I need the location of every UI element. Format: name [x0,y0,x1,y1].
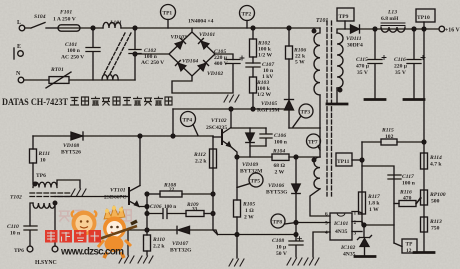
svg-text:C116: C116 [394,57,406,63]
wire R104 line [237,156,272,158]
resistor R105 [234,200,256,235]
svg-text:1N4004 ×4: 1N4004 ×4 [188,19,214,25]
svg-text:2.2 k: 2.2 k [153,244,165,250]
svg-text:TP9: TP9 [339,14,349,20]
svg-text:BYT53G: BYT53G [266,190,288,196]
svg-text:TP10: TP10 [417,15,430,21]
svg-text:100 n: 100 n [164,204,176,210]
svg-text:TP4: TP4 [183,118,193,124]
svg-text:VT102: VT102 [211,118,227,124]
inductor L13 [381,10,405,33]
wire secondary top [337,29,350,33]
node base tap [53,201,57,205]
node R108 left [145,192,149,196]
wire rail to transformer [121,27,320,29]
ground bar secondary [327,103,347,106]
wire x320 mid [319,128,321,157]
svg-text:30DF4: 30DF4 [347,43,363,49]
diode VD101 [198,38,208,48]
diode VD103 [168,26,191,49]
T102 lower winding [33,203,55,208]
svg-text:10: 10 [40,158,46,164]
svg-text:R111: R111 [38,151,51,157]
terminal E [14,44,23,59]
test point TP7 [307,134,321,150]
ground under C105 [224,95,239,102]
svg-text:C110: C110 [7,224,19,230]
svg-text:100 n: 100 n [274,140,288,146]
wire pin3 stub [352,231,362,233]
resistor R102 [250,28,273,63]
svg-text:RP100: RP100 [429,192,446,198]
T101 secondary winding [337,33,343,92]
wire [46,27,58,29]
title text [2,97,172,109]
zener VD110 [340,236,372,258]
svg-text:35 V: 35 V [357,70,368,76]
ground pin4 [304,258,319,265]
inductor L101 top winding [103,20,122,28]
ground R110 [138,256,153,263]
test point TP4 [181,112,199,136]
svg-text:R114: R114 [429,155,442,161]
svg-text:C108: C108 [272,238,284,244]
L101 coupling dashes [104,33,131,74]
svg-text:1/2 W: 1/2 W [258,53,272,59]
svg-text:5 W: 5 W [295,60,305,66]
wire ref node [362,222,394,237]
svg-text:TP6: TP6 [14,248,24,254]
resistor R112 [193,149,217,168]
resistor R116 [394,190,421,207]
node VT102 collector [229,107,233,111]
terminal H.SYNC [35,246,58,266]
node x213 R109 [211,212,215,216]
svg-text:2SD667C: 2SD667C [104,195,126,201]
svg-text:100 n: 100 n [67,48,81,54]
node VD107 left [145,228,149,232]
terminal TP6 [14,246,33,254]
svg-text:1.8 k: 1.8 k [368,201,380,207]
test point TP10 [416,9,435,29]
capacitor C102 [129,28,164,80]
capacitor C108 [272,235,303,258]
resistor R115 [362,128,424,146]
node TP11 [360,158,364,162]
svg-text:2 W: 2 W [275,170,285,176]
svg-text:6.8 mH: 6.8 mH [381,16,399,22]
wire x237 column [236,157,238,200]
svg-text:TP2: TP2 [242,12,252,18]
wire N line [69,79,135,81]
svg-text:L13: L13 [387,10,397,16]
capacitor C101 [61,28,100,80]
node x173 [171,134,175,138]
wire lower winding left to C110 [30,203,33,226]
wire collector line y109 [173,108,289,110]
fuse F101 [53,10,80,32]
resistor R108 [147,183,213,198]
svg-text:TP1: TP1 [163,11,173,17]
svg-text:470 µ: 470 µ [356,64,370,70]
wire secondary bottom to ground [336,88,338,103]
wire VT101 base [55,196,126,198]
resistor R109 [186,202,213,217]
capacitor C106 series [147,204,186,219]
svg-text:4.7 k: 4.7 k [430,162,442,168]
svg-text:470: 470 [403,196,412,202]
wire snubber top [231,127,266,129]
svg-text:750: 750 [431,226,440,232]
T101 aux winding [312,157,320,189]
wire output line [360,28,440,30]
test point TP12 [394,239,417,254]
diode VD109 [240,128,263,175]
test point TP2 [240,6,255,29]
node rail R102 [251,26,255,30]
diode VD102 [198,60,208,70]
test point TP5 [237,173,263,188]
node TP8 [294,221,298,225]
T101 primary winding [312,28,320,95]
resistor R110 [144,235,166,255]
svg-text:VT101: VT101 [110,188,126,194]
svg-text:N: N [16,71,21,77]
svg-text:R105: R105 [242,202,255,208]
svg-text:L: L [17,20,21,26]
svg-text:C115: C115 [356,57,368,63]
svg-text:1 A 250 V: 1 A 250 V [53,17,76,23]
svg-text:T102: T102 [10,195,22,201]
svg-text:33: 33 [192,206,198,212]
svg-text:www.dzsc.com: www.dzsc.com [60,247,124,258]
svg-text:VD107: VD107 [172,241,188,247]
svg-text:10 n: 10 n [10,231,21,237]
svg-text:1 Ω: 1 Ω [245,208,254,214]
optocoupler IC101 [330,213,352,240]
svg-text:4: 4 [325,230,328,236]
svg-text:S104: S104 [34,14,46,20]
svg-text:VD108: VD108 [63,143,79,149]
node R117 bottom [362,223,366,227]
svg-text:102: 102 [385,134,394,140]
wire x362 vertical [361,142,363,222]
node bus R105 [235,233,239,237]
transistor VT102 [206,109,237,157]
svg-text:C106: C106 [150,204,162,210]
svg-text:IC102: IC102 [340,245,356,251]
node bus C108 [294,233,298,237]
svg-text:VD109: VD109 [242,162,258,168]
wire x296 column [295,157,297,235]
svg-text:1/2 W: 1/2 W [257,92,271,98]
svg-text:R110: R110 [152,237,165,243]
svg-text:AC 250 V: AC 250 V [61,55,84,61]
bridge rectifier frame [169,28,215,76]
svg-text:50 V: 50 V [276,251,287,257]
wire pin2 stub [352,222,362,226]
svg-text:R112: R112 [193,152,206,158]
potentiometer RP100 [417,190,446,205]
ground T102 [71,189,86,196]
node C102 bottom [133,52,137,56]
wire bridge bottom return [172,64,233,93]
wire emitter column [146,194,148,235]
svg-text:2 W: 2 W [244,215,254,221]
ground left stub [119,256,134,263]
wire VD107 line [128,229,176,231]
diode VD105 [257,100,294,129]
diode VD108 [61,132,83,156]
capacitor C115 [356,29,386,99]
diode VD111 [346,25,363,49]
ground bar C115 [365,98,385,101]
svg-text:VD111: VD111 [346,36,362,42]
test point TP8 [271,214,296,228]
svg-text:68 Ω: 68 Ω [274,163,286,169]
wire bridge left to C102 [135,53,169,55]
node C116 [412,27,416,31]
capacitor C117 [388,174,416,187]
node C115 [373,27,377,31]
svg-text:5: 5 [325,221,328,227]
output terminal +16V [439,26,460,33]
wire drive line y136 [33,135,213,137]
diode VD106 [266,183,300,196]
resistor R113 [421,217,443,232]
ground bar R113 [414,251,434,254]
node R115 join [422,140,426,144]
node C101 top [91,26,95,30]
svg-text:TP3: TP3 [301,110,311,116]
svg-text:C117: C117 [402,174,414,180]
svg-text:R116: R116 [399,190,412,196]
ground R105 column [229,259,244,266]
svg-text:R113: R113 [429,219,442,225]
test point TP11 [336,153,362,166]
node R104 right [294,155,298,159]
svg-text:12: 12 [406,248,412,254]
capacitor C110 [7,224,37,246]
wire R105 ground drop [236,235,238,259]
svg-text:6: 6 [325,212,328,218]
capacitor C107 [246,62,274,80]
T101 core [327,21,332,196]
svg-text:VD101: VD101 [199,32,215,38]
node emitter [145,205,149,209]
ground bar C116 [404,98,424,101]
capacitor C116 [394,29,425,99]
svg-text:H.SYNC: H.SYNC [35,260,57,266]
ground C108 [287,258,302,265]
svg-text:+16 V: +16 V [445,28,460,34]
wire base column x213 [213,136,218,235]
svg-text:VD104: VD104 [182,59,198,65]
svg-text:VD102: VD102 [207,71,223,77]
svg-text:TP6: TP6 [36,173,46,179]
svg-text:R104: R104 [272,149,285,155]
wire [24,79,49,81]
capacitor C105 [214,49,244,67]
svg-text:RT01: RT01 [50,67,64,73]
test point TP1 [161,5,176,29]
wire aux bottom to pin6 [310,189,330,216]
svg-text:500: 500 [431,199,440,205]
resistor R114 [421,153,443,169]
inductor L101 bottom winding [102,75,118,80]
diode VD107 [170,226,218,253]
svg-text:220 µ: 220 µ [394,64,408,70]
wire lower winding right drop [54,203,56,246]
watermark [45,206,137,258]
svg-text:1 W: 1 W [369,207,379,213]
resistor R104 [272,149,320,176]
node C102 top [133,26,137,30]
test point TP3 [293,104,313,127]
svg-text:E: E [17,44,21,50]
node x237 [235,155,239,159]
svg-text:R117: R117 [367,194,380,200]
svg-text:L101: L101 [109,20,122,26]
wire bottom bus [218,234,297,236]
svg-text:TP: TP [406,242,414,248]
svg-text:DATAS CH-7423T: DATAS CH-7423T [2,98,69,108]
node VT101 collector [138,134,142,138]
node T102 top left [33,182,37,186]
wire upper winding to ground [57,180,80,188]
wire pin1 stub [352,212,362,214]
wire bridge right to C105 [215,54,233,60]
terminal L [17,20,25,31]
node y109 x253 [251,107,255,111]
resistor R111 [30,136,51,184]
wire branch to C117 [362,166,394,243]
switch S104 [25,14,46,28]
svg-text:TP5: TP5 [251,179,261,185]
wire pin4 to ground [313,232,330,257]
node rail R106 [287,26,291,30]
terminal N [16,71,24,83]
svg-text:400 V: 400 V [214,61,228,67]
ground bar zener [355,255,375,258]
svg-text:VD105: VD105 [261,101,277,107]
svg-text:C106: C106 [274,133,286,139]
wire x173 drop [172,109,174,136]
T102 core [10,193,70,201]
svg-text:IC101: IC101 [333,221,349,227]
svg-text:4N35: 4N35 [335,229,348,235]
wire feedback column [423,29,425,252]
node feedback column [422,27,426,31]
wire pin5 [296,222,330,224]
capacitor C106 parallel [260,128,288,146]
svg-text:35 V: 35 V [395,70,406,76]
T102 upper winding [33,182,57,187]
resistor R106 [286,28,307,99]
thermistor RT01 [46,67,71,88]
svg-text:VD103: VD103 [171,35,187,41]
transistor VT101 [104,136,147,207]
svg-text:TP8: TP8 [273,220,283,226]
svg-text:TP7: TP7 [308,140,318,146]
svg-text:2.2 k: 2.2 k [195,159,207,165]
svg-text:VD106: VD106 [268,183,284,189]
svg-text:100 n: 100 n [402,181,416,187]
svg-text:10 µ: 10 µ [276,245,287,251]
wire snubber bottom [250,146,266,157]
node x213 R108 [211,192,215,196]
diode VD104 [175,60,185,70]
node C106b left [145,212,149,216]
svg-text:2SC4235: 2SC4235 [206,125,227,131]
wire AC top rail [80,27,103,29]
svg-text:TP11: TP11 [337,159,350,165]
svg-text:BYT526: BYT526 [61,150,81,156]
resistor R103 [250,77,272,109]
wire primary bottom [319,95,321,128]
wire y128 link [289,127,320,129]
test point TP9 [337,8,354,29]
resistor R117 [359,192,381,214]
svg-text:22: 22 [169,187,175,193]
svg-text:AC 250 V: AC 250 V [141,60,164,66]
wire left stub ground [127,230,129,255]
svg-text:BYT32G: BYT32G [170,248,192,254]
svg-text:F101: F101 [60,10,72,16]
svg-text:R115: R115 [381,128,394,134]
